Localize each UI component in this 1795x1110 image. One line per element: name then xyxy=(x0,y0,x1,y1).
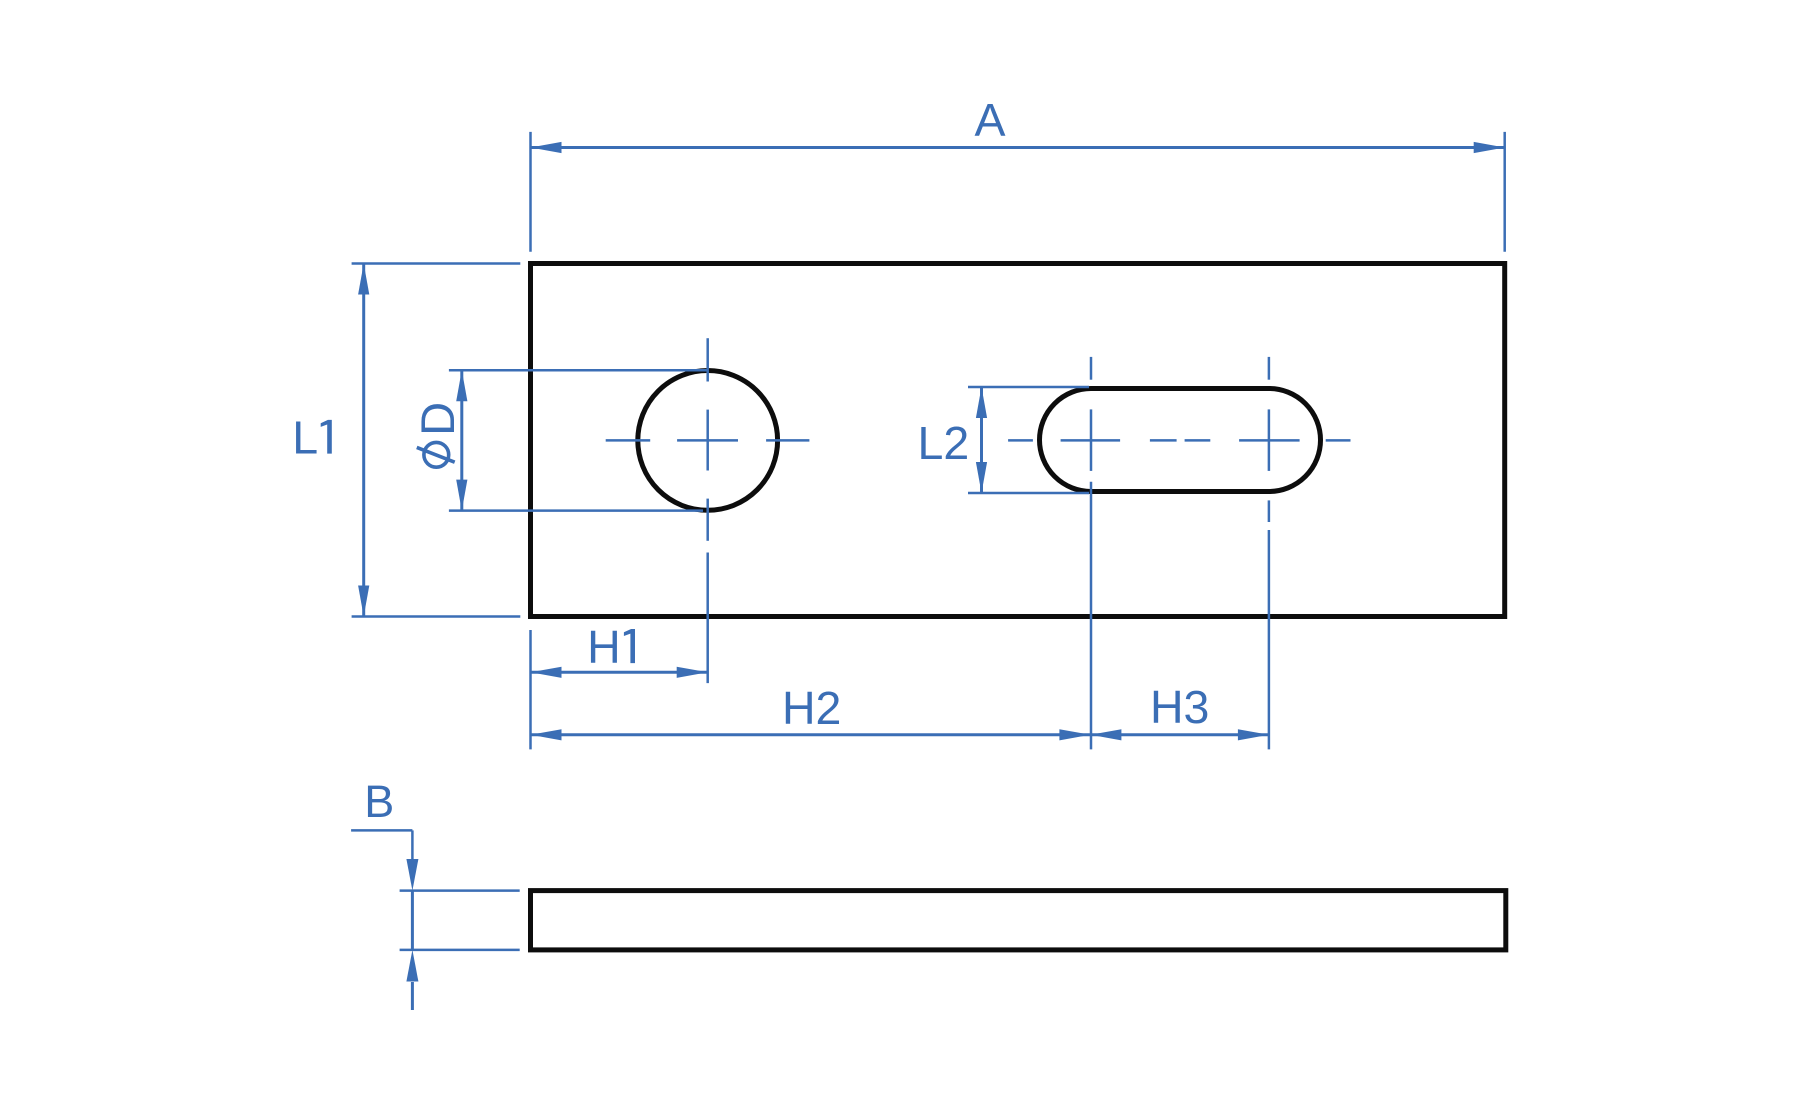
svg-text:A: A xyxy=(974,94,1005,146)
svg-text:L: L xyxy=(292,412,318,464)
svg-text:H2: H2 xyxy=(782,682,841,734)
svg-text:L2: L2 xyxy=(918,417,970,469)
svg-text:H: H xyxy=(587,621,621,673)
svg-text:D: D xyxy=(411,402,464,436)
svg-text:B: B xyxy=(364,776,394,827)
svg-text:H3: H3 xyxy=(1150,681,1209,733)
